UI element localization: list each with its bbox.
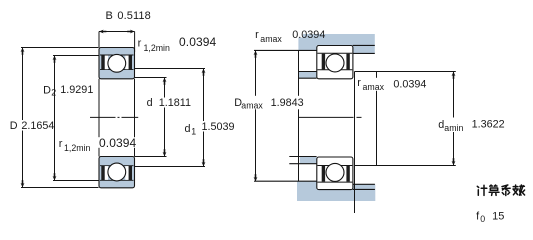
housing bottom right seat line xyxy=(353,188,375,190)
housing bottom right bore line xyxy=(353,183,375,185)
svg-text:B: B xyxy=(106,10,113,22)
label 计算系数 (hand drawn glyphs) xyxy=(477,185,524,196)
bore silhouette right xyxy=(134,79,136,157)
centerline right view xyxy=(299,116,363,118)
right bearing bottom seal left xyxy=(322,166,325,182)
svg-text:0.0394: 0.0394 xyxy=(99,136,137,150)
shaft cut edge vertical right xyxy=(354,72,356,214)
dimension Damax arrows xyxy=(254,51,258,58)
dimension D line xyxy=(21,48,99,188)
bearing top section cavity slivers xyxy=(105,56,129,70)
dimension damin line xyxy=(355,72,456,166)
label damin 1.3622 xyxy=(437,118,505,134)
dimension d line xyxy=(135,78,167,157)
label ramax 0.0394 upper xyxy=(255,29,325,44)
label f0 15 xyxy=(476,210,504,224)
svg-text:amax: amax xyxy=(363,82,385,92)
housing cut edge vertical left xyxy=(298,50,300,181)
label r1,2min 0.0394 top right xyxy=(138,35,217,53)
char shu xyxy=(513,185,525,195)
svg-text:D: D xyxy=(10,120,18,132)
bore silhouette left xyxy=(98,79,100,157)
bearing top seal left xyxy=(101,55,104,69)
char xi xyxy=(502,185,510,196)
bearing bottom section cavity slivers xyxy=(105,166,129,180)
housing top right block xyxy=(353,46,375,54)
label r1,2min 0.0394 left lower xyxy=(59,136,137,153)
tick on left cut edge xyxy=(295,106,300,108)
svg-text:2: 2 xyxy=(51,88,56,98)
svg-text:d: d xyxy=(147,97,153,109)
dimension D2 line xyxy=(53,56,99,181)
svg-text:15: 15 xyxy=(492,210,504,222)
right bearing bottom seal right xyxy=(346,166,349,182)
housing top shoulder bore line xyxy=(254,49,317,51)
svg-text:1.9843: 1.9843 xyxy=(271,97,304,109)
dimension B line xyxy=(99,32,135,52)
char suan xyxy=(489,185,499,195)
bearing bottom raceway lines xyxy=(100,166,134,181)
right bearing top seal right xyxy=(346,54,349,70)
svg-text:amax: amax xyxy=(260,34,282,44)
housing top strip xyxy=(303,34,375,46)
label d 1.1811 xyxy=(146,97,193,109)
svg-text:r: r xyxy=(59,138,63,150)
svg-text:1,2min: 1,2min xyxy=(144,43,171,53)
svg-text:D: D xyxy=(43,84,51,96)
label Damax 1.9843 xyxy=(233,96,306,111)
dimension B arrows xyxy=(99,30,106,34)
svg-text:r: r xyxy=(357,77,361,89)
svg-text:2.1654: 2.1654 xyxy=(21,120,54,132)
housing bottom shoulder bore line xyxy=(254,180,317,182)
svg-text:r: r xyxy=(138,38,142,50)
dimension d1 arrows xyxy=(202,69,206,76)
bearing bottom seal right xyxy=(129,166,132,180)
shoulder face extension vertical right xyxy=(376,72,378,166)
right bearing bottom ring lines xyxy=(317,166,352,183)
shaft top shoulder lines xyxy=(299,72,317,79)
label D2 1.9291 xyxy=(43,84,93,98)
svg-text:0.0394: 0.0394 xyxy=(179,35,217,49)
right bearing top section box xyxy=(317,46,353,79)
dimension Damax line xyxy=(255,51,257,182)
bearing top ball xyxy=(108,54,126,72)
label d1 1.5039 xyxy=(185,121,238,136)
housing bottom strip xyxy=(297,189,375,201)
svg-text:1.5039: 1.5039 xyxy=(202,121,235,133)
right bearing top ring lines xyxy=(317,53,352,70)
svg-text:0.5118: 0.5118 xyxy=(117,10,150,22)
bearing bottom ball xyxy=(108,163,126,181)
shaft top shoulder block xyxy=(299,72,317,79)
char ji xyxy=(477,185,487,195)
right bearing bottom section box xyxy=(317,157,353,190)
right bearing bottom ball xyxy=(326,163,344,181)
svg-text:1,2min: 1,2min xyxy=(64,143,91,153)
housing bottom right block xyxy=(353,184,376,189)
svg-text:0.0394: 0.0394 xyxy=(292,29,325,41)
svg-text:r: r xyxy=(255,29,259,41)
housing top left shoulder block xyxy=(298,46,316,51)
dimension D2 arrows xyxy=(53,56,57,63)
shaft bottom shoulder block xyxy=(300,157,317,164)
dimension d1 line xyxy=(135,69,206,167)
svg-text:d: d xyxy=(185,123,191,135)
svg-text:1.9291: 1.9291 xyxy=(60,84,93,96)
bearing bottom section body xyxy=(99,157,135,188)
svg-text:amin: amin xyxy=(444,123,463,133)
housing top right bore line xyxy=(353,52,375,54)
centerline left view xyxy=(90,116,138,118)
svg-text:amax: amax xyxy=(241,101,263,111)
svg-text:0.0394: 0.0394 xyxy=(393,78,426,90)
svg-text:1: 1 xyxy=(191,126,196,136)
svg-text:1.3622: 1.3622 xyxy=(472,119,505,131)
housing top right seat line xyxy=(353,44,375,46)
bearing top seal right xyxy=(129,55,132,69)
bearing bottom seal left xyxy=(101,166,104,180)
bearing top raceway lines xyxy=(100,55,134,70)
right bearing top ball xyxy=(326,54,344,72)
label ramax 0.0394 middle xyxy=(356,77,427,92)
dimension D arrows xyxy=(21,48,25,55)
svg-text:0: 0 xyxy=(480,214,485,224)
bearing top section body xyxy=(99,48,135,79)
housing bottom left shoulder block xyxy=(297,181,317,189)
dimension d arrows xyxy=(163,78,167,85)
shaft bottom shoulder lines xyxy=(289,157,316,164)
label D 2.1654 xyxy=(9,120,56,132)
svg-text:1.1811: 1.1811 xyxy=(159,97,191,109)
dimension damin arrows xyxy=(452,72,456,79)
right bearing top seal left xyxy=(322,54,325,70)
